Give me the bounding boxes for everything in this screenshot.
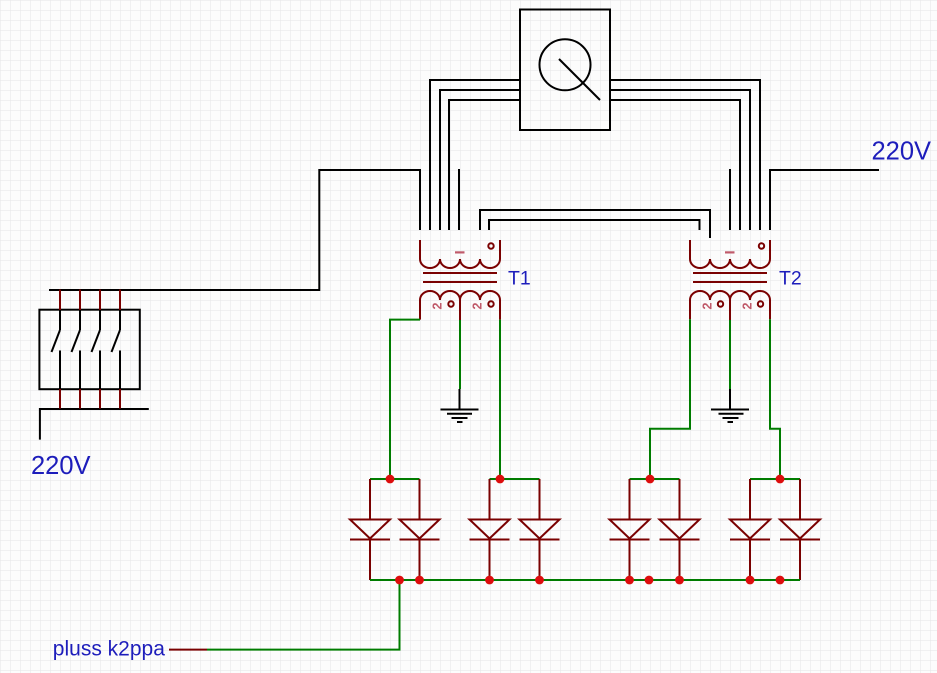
- diode D3: [470, 479, 510, 580]
- T1 winding number 1: [455, 251, 465, 253]
- switch S1 pole 3: [92, 310, 101, 389]
- T1 polarity dot primary: [488, 243, 493, 248]
- switch S1 body: [39, 310, 139, 390]
- svg-text:2: 2: [430, 302, 444, 309]
- diode D1: [350, 479, 390, 580]
- junction: bus D4: [535, 576, 544, 585]
- diode D4: [520, 479, 560, 580]
- switch S1 pole 4: [112, 310, 121, 389]
- wire: pluss k2ppa lead (dark red): [169, 649, 207, 651]
- wire: meter right phase 1: [610, 80, 760, 230]
- switch S1 pole 2: [72, 310, 81, 389]
- svg-text:220V: 220V: [872, 138, 932, 166]
- ground GND2: [711, 389, 749, 422]
- wire: stub above T2: [729, 169, 731, 230]
- wire: T1 center tap to ground (green): [459, 320, 461, 389]
- wire: T1 secondary left output (green): [390, 320, 420, 479]
- svg-text:T2: T2: [779, 268, 802, 290]
- junction: bus mid: [645, 576, 654, 585]
- junction: bus right: [776, 576, 785, 585]
- switch S1 bottom pin stubs: [60, 389, 120, 409]
- svg-text:T1: T1: [508, 268, 531, 290]
- junction: pair 1 top: [386, 475, 395, 484]
- svg-text:2: 2: [700, 302, 714, 309]
- diode D5: [610, 479, 650, 580]
- T1 polarity dot secondary a: [448, 301, 453, 306]
- svg-text:2: 2: [740, 302, 754, 309]
- junction: bus D6: [675, 576, 684, 585]
- wire: diode pair 1 top link (green): [370, 478, 420, 480]
- wire: meter left phase 1: [430, 80, 520, 230]
- wire: T2 center tap to ground (green): [729, 320, 731, 389]
- T1 polarity dot secondary b: [488, 301, 493, 306]
- wire: diode pair 3 top link (green): [630, 478, 680, 480]
- wire: meter right phase 2: [610, 90, 750, 230]
- transformer T2: [690, 240, 770, 320]
- ground GND1: [441, 389, 479, 422]
- switch S1 top pin stubs: [60, 290, 120, 311]
- T2 polarity dot secondary b: [758, 301, 763, 306]
- diode D2: [400, 479, 440, 580]
- wire: diode pair 2 top link (green): [490, 478, 540, 480]
- wire: output to pluss k2ppa (green): [207, 580, 400, 650]
- junction: bus D3: [485, 576, 494, 585]
- wire: T1-T2 link lower: [489, 220, 700, 230]
- junction: pair 3 top: [646, 475, 655, 484]
- diode D8: [780, 479, 820, 580]
- svg-text:2: 2: [470, 302, 484, 309]
- junction: bus D5: [625, 576, 634, 585]
- diode D6: [660, 479, 700, 580]
- junction: pair 4 top: [776, 475, 785, 484]
- wire: meter left phase 2: [440, 90, 520, 230]
- T2 polarity dot secondary a: [718, 301, 723, 306]
- T2 polarity dot primary: [759, 243, 764, 248]
- junction: bus D7: [746, 576, 755, 585]
- diode D7: [730, 479, 770, 580]
- wire: stub above T1: [458, 169, 460, 230]
- svg-text:pluss k2ppa: pluss k2ppa: [53, 638, 165, 661]
- T2 winding number 1: [725, 251, 735, 253]
- transformer T1: [420, 240, 500, 322]
- meter box M1: [520, 10, 610, 131]
- junction: pair 2 top: [496, 475, 505, 484]
- wire: 220V right feed to T2: [770, 170, 879, 230]
- wire: meter left phase 3: [449, 100, 520, 230]
- junction: bus output tap: [395, 576, 404, 585]
- wire: T2 secondary right output (green): [770, 319, 780, 479]
- wire: meter right phase 3: [610, 100, 740, 230]
- wire: T2 secondary left output (green): [650, 319, 690, 479]
- wire: diode pair 4 top link (green): [750, 478, 800, 480]
- wire: switch bottom to 220V left: [40, 409, 149, 440]
- wire: left feed from switch to T1: [49, 170, 420, 290]
- svg-text:220V: 220V: [31, 452, 91, 480]
- switch S1 pole 1: [52, 310, 61, 389]
- junction: bus D2: [415, 576, 424, 585]
- wire: T1-T2 link upper: [480, 210, 710, 238]
- wire: output bus (green): [370, 579, 800, 581]
- wire: T1 secondary right output (green): [499, 320, 501, 479]
